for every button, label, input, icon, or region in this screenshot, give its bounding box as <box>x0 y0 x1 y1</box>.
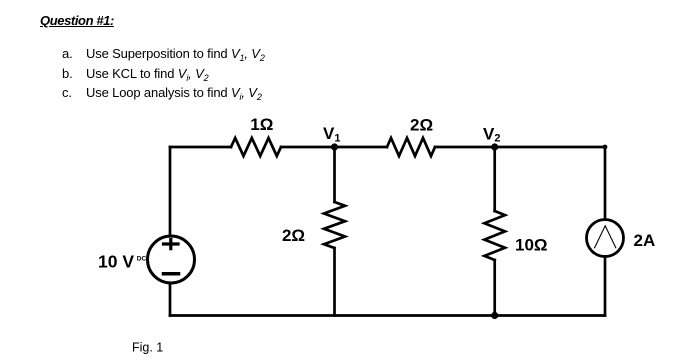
svg-text:2Ω: 2Ω <box>410 116 433 135</box>
svg-text:2Ω: 2Ω <box>282 226 305 245</box>
svg-text:DC: DC <box>137 256 147 263</box>
svg-text:1Ω: 1Ω <box>250 115 273 134</box>
svg-text:V2: V2 <box>483 125 500 145</box>
svg-text:V1: V1 <box>323 124 340 144</box>
svg-text:2A: 2A <box>634 231 656 250</box>
svg-text:10 V: 10 V <box>98 252 134 272</box>
svg-text:10Ω: 10Ω <box>515 236 548 255</box>
svg-text:Fig. 1: Fig. 1 <box>132 340 163 354</box>
